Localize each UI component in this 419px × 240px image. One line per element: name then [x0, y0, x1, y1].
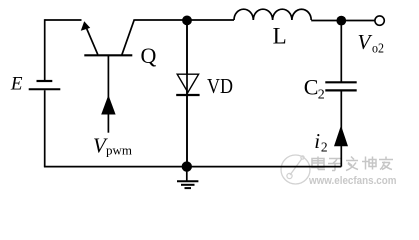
svg-text:L: L — [273, 24, 287, 49]
svg-text:www.elecfans.com: www.elecfans.com — [308, 175, 397, 187]
svg-text:i: i — [314, 129, 320, 153]
svg-text:V: V — [358, 30, 373, 54]
svg-text:2: 2 — [321, 139, 328, 154]
svg-text:o2: o2 — [372, 42, 384, 57]
svg-text:C: C — [304, 75, 319, 100]
svg-text:2: 2 — [318, 88, 325, 103]
svg-text:E: E — [10, 74, 23, 95]
svg-text:VD: VD — [207, 74, 233, 98]
svg-text:pwm: pwm — [106, 142, 132, 157]
svg-text:Q: Q — [141, 43, 157, 68]
